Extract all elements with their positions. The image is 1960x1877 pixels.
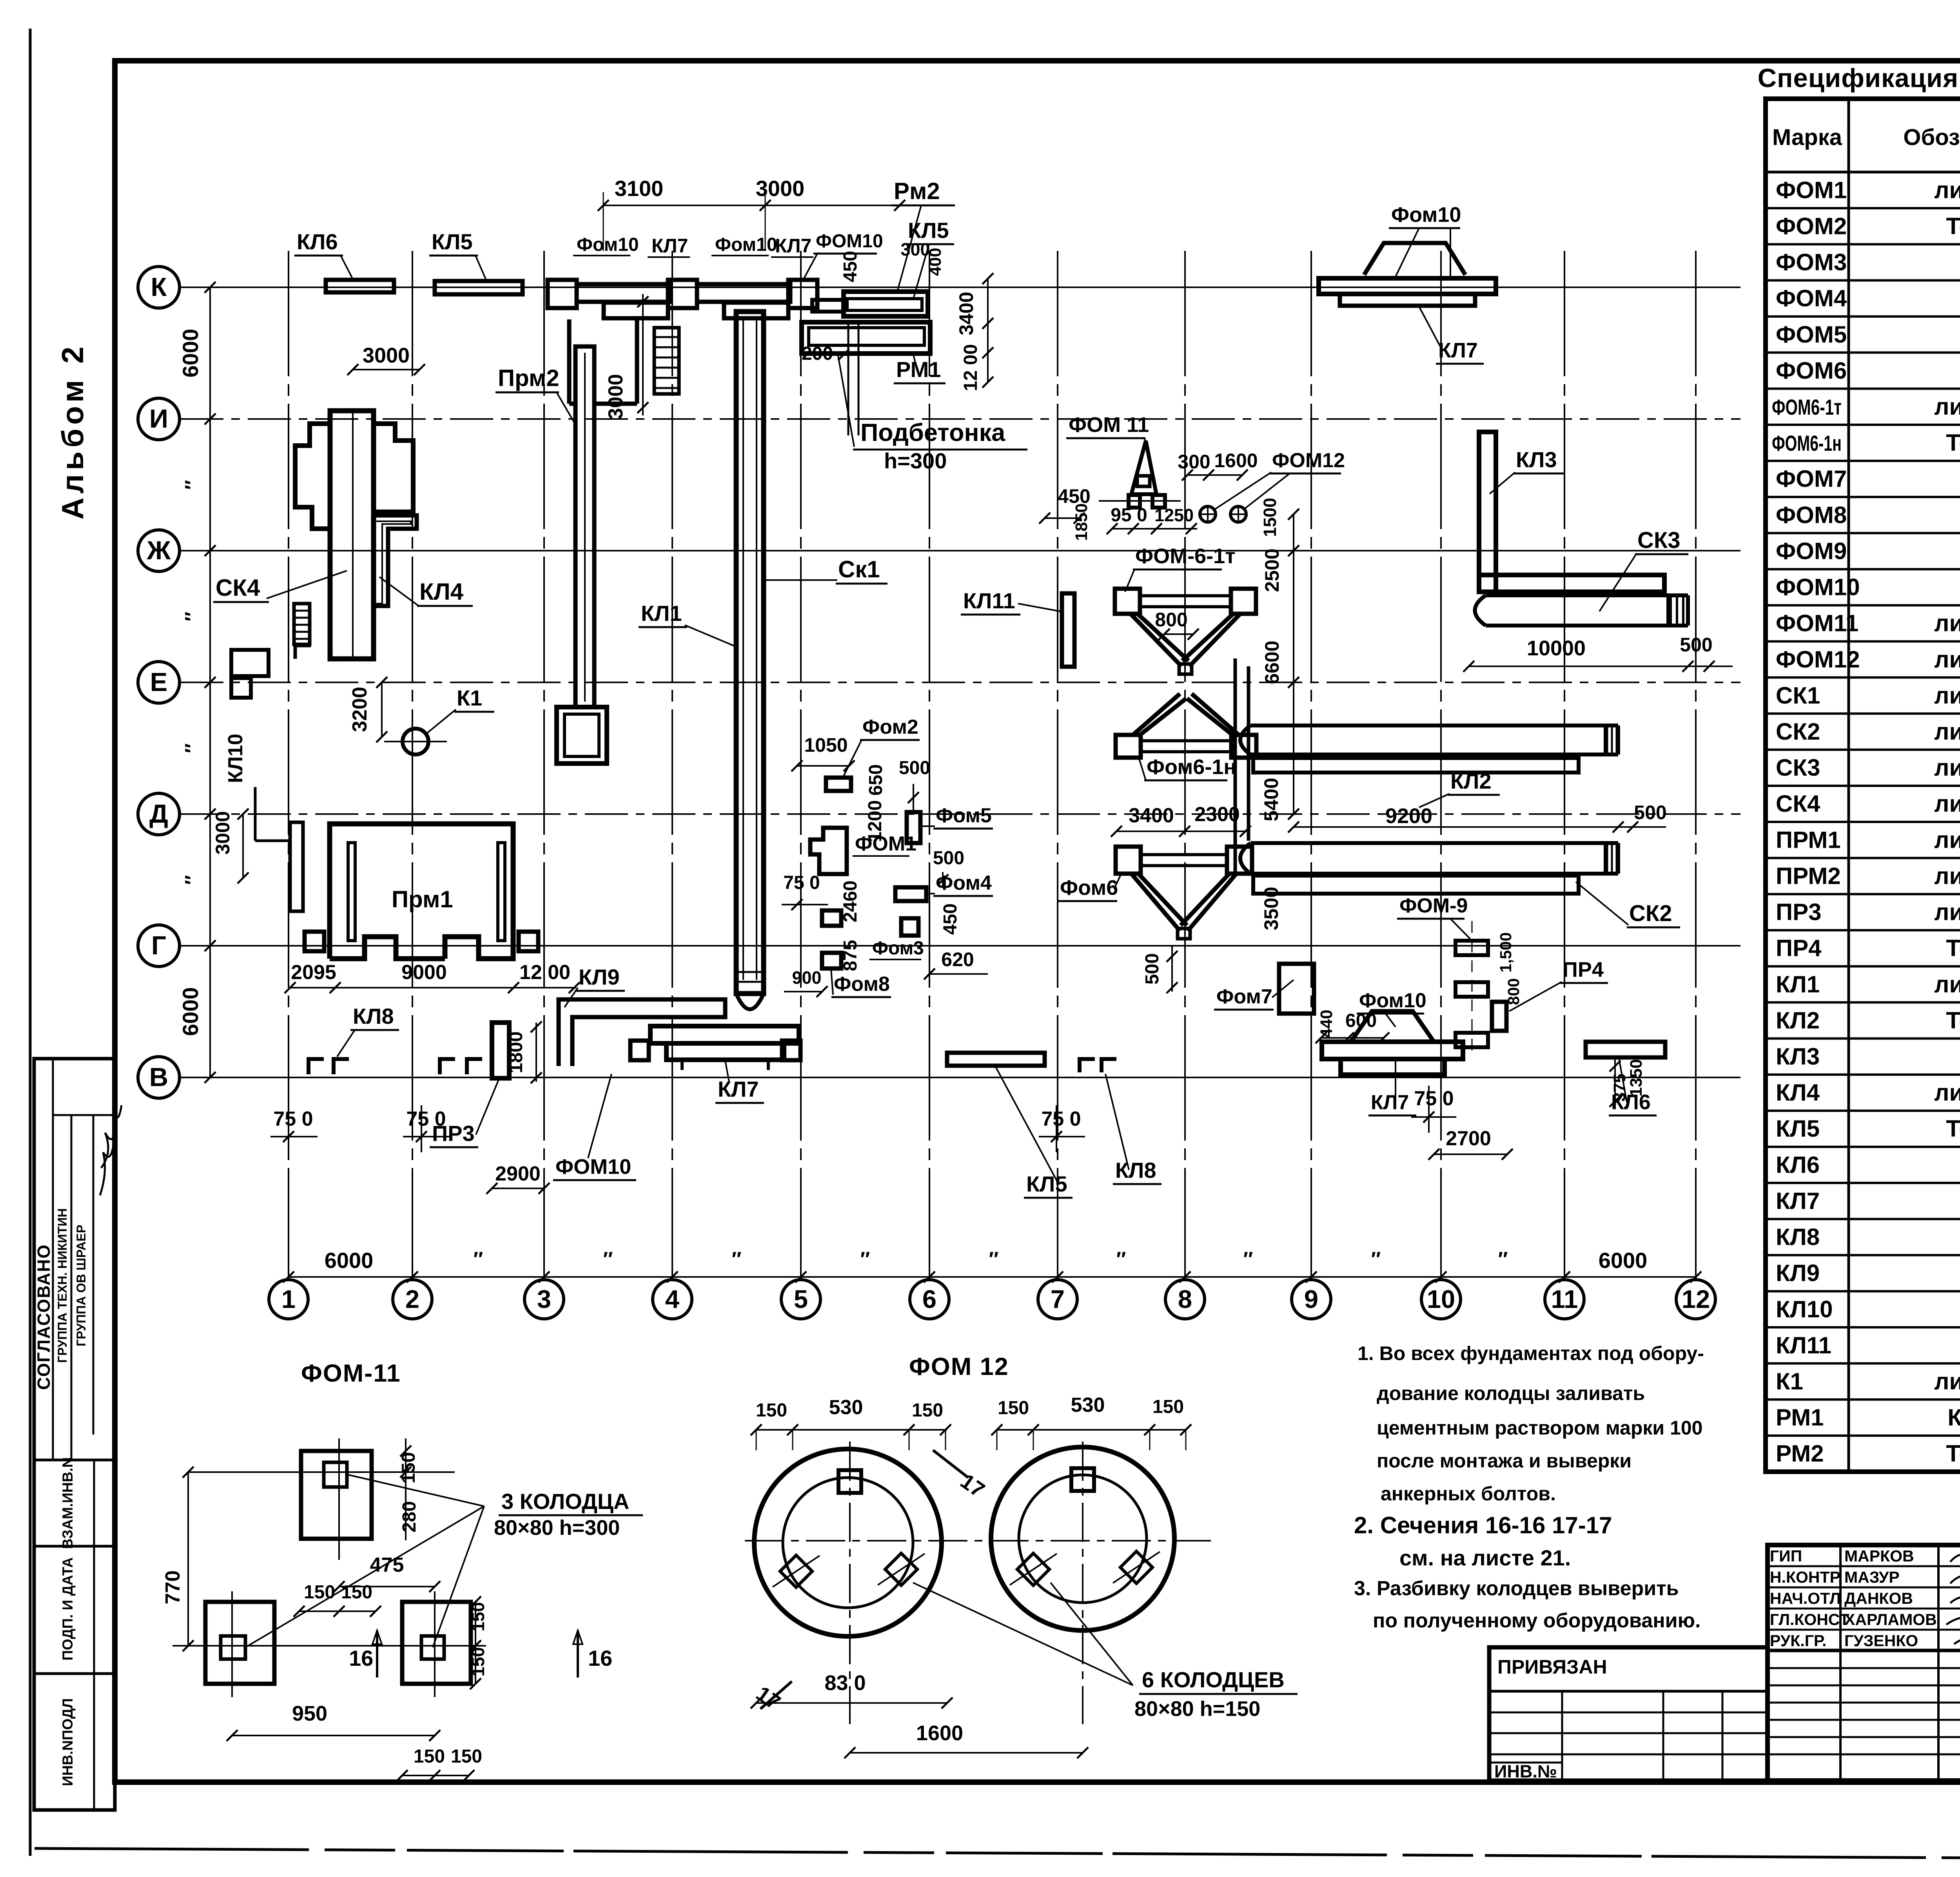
svg-text:КЛ3: КЛ3 [1516,447,1557,472]
svg-text:КЛ7: КЛ7 [1438,339,1478,362]
svg-text:95 0: 95 0 [1111,505,1147,526]
canal КЛ5 bar at В [947,1053,1045,1066]
svg-text:лист 14: лист 14 [1934,646,1960,673]
svg-text:КЛ11: КЛ11 [963,588,1015,613]
svg-text:Д: Д [149,799,168,829]
svg-text:Марка: Марка [1772,125,1842,150]
svg-text:83 0: 83 0 [824,1671,866,1695]
top dimension 3100 3000 [603,205,900,206]
svg-text:лист 14: лист 14 [1934,610,1960,637]
svg-text:ГЛ.КОНСТ: ГЛ.КОНСТ [1770,1610,1849,1629]
left stamp box [34,1059,115,1810]
pit СК3 capsule [1486,595,1668,626]
svg-text:Фом6: Фом6 [1060,876,1118,900]
svg-text:ПРИВЯЗАН: ПРИВЯЗАН [1497,1656,1607,1678]
svg-text:500: 500 [1142,953,1163,985]
svg-text:150: 150 [341,1582,372,1603]
svg-text:3000: 3000 [363,344,410,367]
ФОМ-11 left square [205,1602,274,1684]
ФОМ12 top anchor squares [838,1470,861,1493]
svg-text:1250: 1250 [1154,505,1194,525]
svg-text:1050: 1050 [804,734,848,756]
svg-text:400: 400 [926,248,945,276]
svg-text:ПОДП. И ДАТА: ПОДП. И ДАТА [60,1557,76,1661]
svg-text:Е: Е [150,667,168,697]
svg-text:530: 530 [829,1396,863,1419]
svg-text:МАЗУР: МАЗУР [1844,1568,1900,1586]
svg-text:цементным раствором марки 10: цементным раствором марки 100 [1377,1417,1702,1439]
svg-text:300: 300 [1178,451,1210,473]
svg-text:″: ″ [181,744,204,753]
svg-text:Фом7: Фом7 [1216,985,1272,1008]
svg-text:″: ″ [181,612,204,622]
svg-text:″: ″ [1498,1248,1508,1271]
svg-text:80×80 h=150: 80×80 h=150 [1134,1697,1260,1721]
svg-text:ФОМ 11: ФОМ 11 [1069,413,1149,437]
foundation ФОМ4 [895,887,926,901]
svg-text:ПР4: ПР4 [1563,958,1604,981]
vertical dim line at col8 area [1293,514,1294,815]
svg-text:2500: 2500 [1261,548,1283,592]
svg-text:Фом6-1н: Фом6-1н [1147,755,1236,779]
svg-text:620: 620 [941,948,974,970]
svg-text:Фом10: Фом10 [1391,203,1461,227]
svg-text:дование колодцы заливать: дование колодцы заливать [1377,1382,1645,1404]
svg-text:РМ1: РМ1 [896,357,941,382]
dim 3000 col1-2 [353,369,419,370]
svg-text:лист 15: лист 15 [1934,827,1960,853]
svg-text:КЛ8: КЛ8 [1776,1224,1820,1250]
svg-text:500: 500 [899,758,930,778]
svg-text:Ск1: Ск1 [838,556,880,582]
svg-text:6 КОЛОДЦЕВ: 6 КОЛОДЦЕВ [1142,1667,1285,1692]
svg-text:ФОМ4: ФОМ4 [1776,285,1847,312]
frame РМ2 [844,292,928,316]
svg-text:То же: То же [1946,1440,1960,1467]
svg-text:Фом10: Фом10 [715,234,777,255]
Прм1 flanking squares [305,932,324,951]
svg-text:1600: 1600 [916,1721,963,1745]
pit ПР4 bar [1492,1002,1506,1031]
svg-text:16: 16 [588,1646,612,1670]
СК2 plate lower [1253,876,1579,894]
СК4 left stepped block [295,424,330,529]
svg-text:4: 4 [665,1285,679,1313]
svg-text:6: 6 [922,1285,936,1313]
svg-text:лист 19: лист 19 [1934,971,1960,997]
svg-text:150: 150 [414,1746,445,1767]
svg-text:КЛ7: КЛ7 [718,1077,759,1101]
svg-text:Фом10: Фом10 [1359,989,1426,1012]
attachment table Привязан [1489,1647,1768,1781]
svg-text:ФОМ12: ФОМ12 [1776,646,1860,673]
svg-text:3000: 3000 [756,176,805,201]
canal КЛ3 angle [1479,432,1496,592]
pit Прм2 top collar [567,319,572,404]
СК4 bottom mark [295,646,311,659]
foundation ФОМ7 [1279,964,1314,1014]
svg-text:ДАНКОВ: ДАНКОВ [1844,1589,1913,1607]
spec table outer frame [1766,99,1960,1472]
svg-text:КЛ6: КЛ6 [1776,1152,1820,1178]
svg-text:НАЧ.ОТЛ: НАЧ.ОТЛ [1770,1589,1841,1607]
svg-text:″: ″ [989,1248,999,1271]
svg-text:6000: 6000 [178,329,203,378]
svg-text:150: 150 [756,1400,787,1421]
svg-text:1800: 1800 [506,1032,526,1074]
svg-text:ФОМ6-1т: ФОМ6-1т [1772,395,1842,419]
svg-text:ПР3: ПР3 [432,1121,475,1146]
svg-text:КЛ4: КЛ4 [419,579,464,605]
svg-text:″: ″ [1116,1248,1126,1271]
spec table header row line [1766,171,1960,174]
svg-text:Фом2: Фом2 [862,716,918,738]
svg-text:КЛ5: КЛ5 [432,229,473,254]
ФОМ-11 leader lines to 3 колодца [347,1474,484,1506]
pit ПР3 bar [492,1023,509,1078]
svg-text:Фом8: Фом8 [834,973,890,996]
svg-text:3000: 3000 [604,374,627,419]
svg-text:ФОМ-11: ФОМ-11 [301,1360,401,1387]
svg-text:150: 150 [912,1400,943,1421]
svg-text:450: 450 [940,903,961,935]
svg-text:ФОМ3: ФОМ3 [1776,249,1847,276]
svg-text:КЛ1: КЛ1 [641,601,682,626]
svg-text:500: 500 [1634,802,1666,823]
svg-text:2095: 2095 [291,961,336,984]
svg-text:СК4: СК4 [216,575,260,601]
svg-text:лист 27: лист 27 [1934,754,1960,781]
svg-text:СК3: СК3 [1776,754,1820,781]
outer left trim line [29,29,32,1856]
spec table column lines [1847,99,1850,1472]
svg-text:3000: 3000 [212,811,234,854]
svg-text:″: ″ [474,1248,483,1271]
ФОМ12 left circle [754,1449,942,1636]
ФОМ-11 top square [301,1451,372,1539]
svg-text:9000: 9000 [401,961,447,984]
svg-text:МАРКОВ: МАРКОВ [1844,1547,1914,1565]
left vertical dimension line [209,287,211,1077]
svg-text:″: ″ [860,1248,870,1271]
svg-text:875: 875 [840,940,861,971]
bottom dimension line [289,1276,1696,1278]
svg-text:РУК.ГР.: РУК.ГР. [1770,1632,1827,1650]
svg-text:h=300: h=300 [884,448,947,473]
stamp signatures [100,1129,115,1195]
svg-text:Рм2: Рм2 [894,178,940,204]
svg-text:То же: То же [1946,430,1960,456]
svg-text:2900: 2900 [495,1162,541,1185]
canal КЛ9 bracket [559,999,725,1066]
СК4 ladder hatch [294,604,310,644]
svg-text:ВЗАМ.ИНВ.N: ВЗАМ.ИНВ.N [60,1457,76,1549]
svg-text:500: 500 [933,848,964,869]
footing trapezoid at В right [1351,1011,1434,1042]
svg-text:75 0: 75 0 [273,1108,313,1130]
svg-text:Фом10: Фом10 [577,234,639,255]
svg-text:1: 1 [281,1285,296,1313]
svg-text:ФОМ8: ФОМ8 [1776,502,1847,528]
svg-text:6000: 6000 [1599,1248,1648,1273]
svg-text:80×80 h=300: 80×80 h=300 [494,1516,620,1540]
svg-text:75 0: 75 0 [1041,1108,1081,1130]
svg-text:лист 17: лист 17 [1934,863,1960,889]
svg-text:То же: То же [1946,1007,1960,1034]
svg-text:″: ″ [1371,1248,1381,1271]
svg-text:лист 26: лист 26 [1934,718,1960,745]
ФОМ12 center lines [745,1540,1211,1541]
svg-text:Фом4: Фом4 [936,872,992,894]
svg-text:ФОМ7: ФОМ7 [1776,466,1847,492]
svg-text:К1: К1 [1776,1368,1803,1395]
canal КЛ10 bracket [254,787,257,841]
КЛ8 pieces at В middle [1080,1059,1095,1072]
row axis circles [138,267,180,308]
svg-text:СК3: СК3 [1637,528,1681,553]
svg-text:3. Разбивку колодцев вывери: 3. Разбивку колодцев выверить [1354,1577,1679,1600]
svg-text:2700: 2700 [1446,1127,1491,1150]
svg-text:1500: 1500 [1260,498,1280,537]
ФОМ12 diagonal anchor squares [780,1555,812,1587]
svg-text:КЛ6: КЛ6 [1611,1090,1651,1114]
svg-text:КЛ2: КЛ2 [1776,1007,1820,1034]
svg-text:10000: 10000 [1527,637,1586,660]
svg-text:ФОМ10: ФОМ10 [1776,574,1860,600]
svg-text:КЛ3: КЛ3 [1776,1043,1820,1070]
svg-text:КЛ7: КЛ7 [1371,1091,1409,1114]
signature scribbles [1950,1550,1960,1562]
svg-text:ПР3: ПР3 [1776,899,1822,925]
svg-text:лист 20: лист 20 [1934,899,1960,925]
svg-text:КЛ4: КЛ4 [1776,1079,1820,1106]
svg-text:КЛ7: КЛ7 [1776,1188,1820,1214]
dim line 2095 9000 1200 [290,987,576,988]
leaders to 6 колодцев [913,1583,1133,1685]
svg-text:см. на листе 21.: см. на листе 21. [1399,1545,1571,1570]
svg-text:ФОМ5: ФОМ5 [1776,321,1847,348]
svg-text:″: ″ [603,1248,613,1271]
ФОМ-11 right square [402,1602,471,1684]
svg-text:КЛ9: КЛ9 [1776,1260,1820,1286]
svg-text:Обозначение: Обозначение [1903,125,1960,150]
СК4 right stepped block [374,424,413,512]
svg-text:16: 16 [349,1646,373,1670]
svg-text:1600: 1600 [1214,450,1258,472]
svg-text:″: ″ [1243,1248,1253,1271]
column axis circles [269,1280,308,1319]
svg-text:75 0: 75 0 [1414,1087,1454,1110]
svg-text:3400: 3400 [1129,804,1174,827]
ФОМ12 right circle [991,1447,1174,1630]
svg-text:ФОМ-9: ФОМ-9 [1399,894,1468,917]
svg-text:Прм1: Прм1 [392,886,453,912]
svg-text:КМ14: КМ14 [1947,1404,1960,1431]
svg-text:И: И [149,404,168,433]
canal КЛ5 top bar [435,281,523,294]
К row foundation chain blocks [548,280,577,308]
svg-text:530: 530 [1071,1394,1105,1416]
svg-text:150: 150 [1152,1396,1184,1417]
svg-text:10: 10 [1427,1285,1455,1313]
truss ФОМ6-1н (braces up) [1116,735,1141,758]
svg-text:лист 22: лист 22 [1934,1368,1960,1395]
stamp divider lines [52,1059,54,1460]
svg-text:ФОМ1: ФОМ1 [855,832,916,855]
svg-text:12 00: 12 00 [960,344,981,391]
svg-text:8: 8 [1178,1285,1192,1313]
svg-text:ГИП: ГИП [1770,1547,1802,1565]
svg-text:ГУЗЕНКО: ГУЗЕНКО [1844,1632,1918,1650]
svg-text:Ж: Ж [147,536,171,565]
svg-text:В: В [149,1063,168,1092]
svg-text:лист 21: лист 21 [1934,177,1960,203]
foundation ФОМ-9 blocks [1455,941,1488,955]
svg-text:7: 7 [1051,1285,1065,1313]
ФОМ-11 axis lines [188,1471,455,1473]
svg-text:КЛ5: КЛ5 [908,218,949,243]
svg-text:9200: 9200 [1385,804,1432,828]
svg-text:ФОМ2: ФОМ2 [1776,213,1847,239]
foundation ФОМ3 [901,918,918,936]
svg-text:К: К [151,272,167,302]
foundation ФОМ12 wells [1200,506,1216,522]
svg-text:650: 650 [866,764,886,796]
svg-text:280: 280 [399,1501,420,1532]
СК1 upper double lines [848,321,849,435]
svg-text:3200: 3200 [348,687,371,732]
pit СК1 channel [736,312,764,994]
ФОМ11 triangle [1131,441,1156,494]
svg-text:3400: 3400 [955,292,977,335]
canal КЛ6 top bar [326,280,394,292]
СК2 plate upper [1253,758,1579,773]
small blocks west of col1 row Е [231,650,269,676]
svg-text:КЛ8: КЛ8 [1115,1158,1156,1182]
canal КЛ11 bar [1062,593,1074,667]
ФОМ12 extension verticals [756,1430,757,1450]
svg-text:КЛ1: КЛ1 [1776,971,1820,997]
canal КЛ4 channel [375,515,417,606]
svg-text:800: 800 [1155,609,1187,631]
svg-text:ФОМ1: ФОМ1 [1776,177,1847,203]
svg-text:″: ″ [181,875,204,885]
svg-text:анкерных болтов.: анкерных болтов. [1381,1483,1556,1505]
svg-text:лист 23: лист 23 [1934,682,1960,709]
svg-text:2. Сечения 16-16 17-17: 2. Сечения 16-16 17-17 [1354,1512,1612,1538]
svg-text:″: ″ [181,480,204,490]
svg-text:150: 150 [451,1746,482,1767]
svg-text:РМ1: РМ1 [1776,1404,1824,1431]
svg-text:КЛ2: КЛ2 [1450,769,1492,793]
svg-text:1. Во всех фундаментах под о: 1. Во всех фундаментах под обору- [1357,1342,1704,1364]
truss ФОМ6 [1116,847,1141,874]
svg-text:5: 5 [794,1285,808,1313]
svg-text:То же: То же [1946,213,1960,239]
foundation ФОМ5 [907,812,920,843]
pit СК4 main channel [330,411,374,659]
КЛ7 footing at В cols3-4 [650,1026,799,1043]
ladder hatch col3-4 [654,328,679,394]
svg-text:лист 20: лист 20 [1934,1079,1960,1106]
Прм1 inner walls [348,843,355,941]
svg-text:ПРМ2: ПРМ2 [1776,863,1841,889]
ФОМ11 anchor squares [1129,495,1140,508]
svg-text:КЛ9: КЛ9 [579,965,620,989]
svg-text:ИНВ.NПОДЛ: ИНВ.NПОДЛ [60,1698,76,1786]
К row right footing bars [1319,278,1496,294]
svg-text:лист 22: лист 22 [1934,394,1960,420]
svg-text:150: 150 [998,1398,1029,1418]
svg-text:после монтажа и выверки: после монтажа и выверки [1377,1450,1632,1472]
foundation ФОМ1 shape [810,828,847,874]
svg-text:900: 900 [792,968,821,988]
pit СК2 capsule lower [1250,843,1606,874]
svg-text:ГРУППА ОВ ШРАЕР: ГРУППА ОВ ШРАЕР [74,1225,88,1346]
svg-text:То же: То же [1946,935,1960,961]
grid column lines [288,251,289,1277]
svg-text:3: 3 [537,1285,551,1313]
svg-text:ФОМ9: ФОМ9 [1776,538,1847,564]
svg-text:КЛ10: КЛ10 [1776,1296,1833,1322]
svg-text:6000: 6000 [325,1248,374,1273]
svg-text:450: 450 [840,251,861,282]
grid row lines [180,287,1740,288]
svg-text:ФОМ10: ФОМ10 [555,1155,631,1179]
svg-text:Прм2: Прм2 [498,365,559,391]
svg-text:К1: К1 [457,686,482,710]
foundation ФОМ2 [826,778,851,791]
svg-text:Фом3: Фом3 [872,938,924,959]
svg-text:ГРУППА ТЕХН. НИКИТИН: ГРУППА ТЕХН. НИКИТИН [55,1208,69,1363]
svg-text:ФОМ10: ФОМ10 [816,231,883,252]
svg-text:6000: 6000 [178,987,203,1036]
svg-text:150: 150 [304,1582,335,1603]
svg-text:2: 2 [405,1285,419,1313]
vertical dim 3400 1200 [987,279,989,382]
pit СК2 capsule upper [1250,725,1606,754]
svg-text:Альбом 2: Альбом 2 [55,343,90,519]
frame РМ1 with подбетонка [802,322,930,354]
svg-text:КЛ11: КЛ11 [1776,1332,1831,1358]
svg-text:СОГЛАСОВАНО: СОГЛАСОВАНО [34,1244,54,1390]
title block signature table [1768,1545,1960,1781]
svg-text:9: 9 [1304,1285,1318,1313]
svg-text:5400: 5400 [1260,778,1282,821]
svg-text:475: 475 [370,1554,404,1576]
svg-text:КЛ8: КЛ8 [353,1004,394,1028]
svg-text:ФОМ-6-1т: ФОМ-6-1т [1135,544,1236,568]
svg-text:1850: 1850 [1072,503,1091,541]
svg-text:6600: 6600 [1261,640,1283,684]
svg-text:″: ″ [732,1248,742,1271]
svg-text:200: 200 [802,343,833,364]
svg-text:11: 11 [1551,1285,1578,1313]
svg-text:СК2: СК2 [1776,718,1820,745]
svg-text:950: 950 [292,1702,327,1725]
svg-text:3100: 3100 [615,176,664,201]
svg-text:Г: Г [151,931,166,960]
svg-text:12 00: 12 00 [519,961,570,984]
bottom paper edge line [34,1848,1960,1861]
svg-text:Фом5: Фом5 [936,804,992,827]
svg-text:СК1: СК1 [1776,682,1820,709]
svg-text:ФОМ6: ФОМ6 [1776,357,1847,384]
svg-text:Спецификация элементов подзе: Спецификация элементов подземного хозяйс… [1758,63,1960,93]
svg-text:СК2: СК2 [1629,901,1672,926]
svg-text:2300: 2300 [1194,803,1240,826]
svg-text:РМ2: РМ2 [1776,1440,1824,1467]
